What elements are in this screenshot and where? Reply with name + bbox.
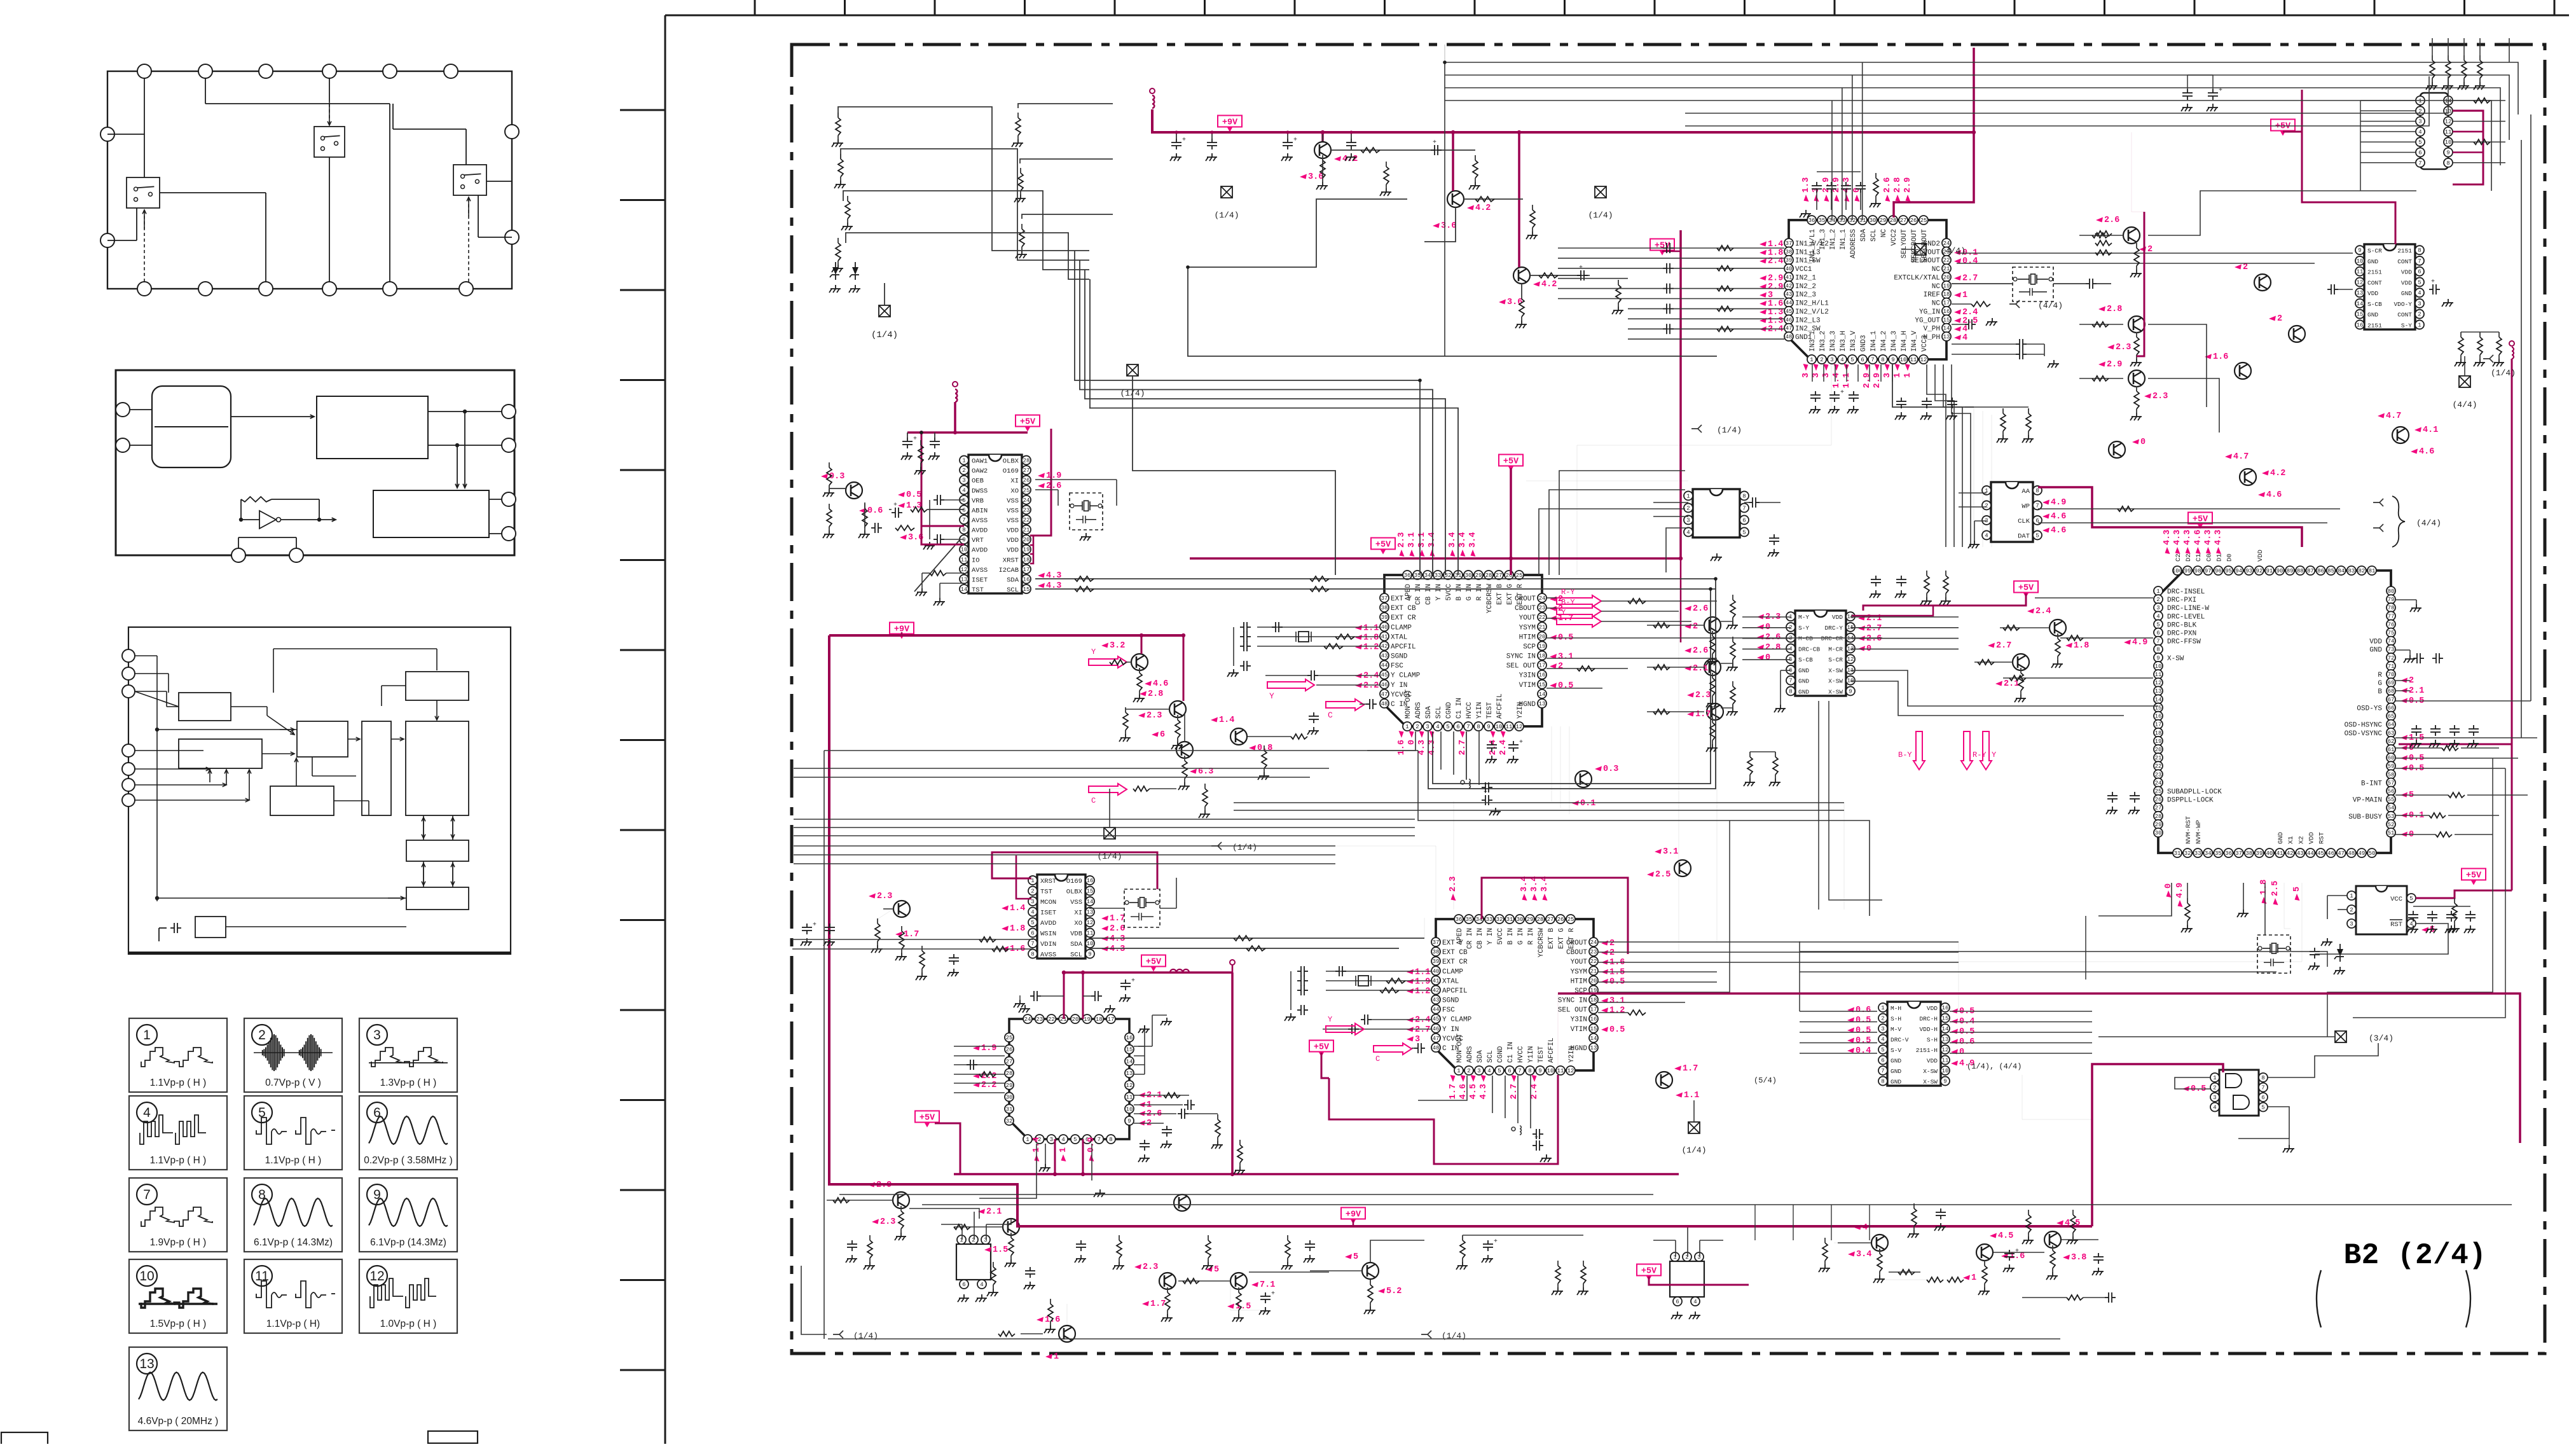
gray junction dots [1714, 577, 1718, 581]
svg-text:ADRS: ADRS [1466, 1046, 1474, 1063]
svg-text:5: 5 [1214, 1265, 1219, 1275]
svg-text:76: 76 [2388, 621, 2395, 628]
svg-text:2.1: 2.1 [2409, 686, 2424, 696]
svg-text:82: 82 [2358, 568, 2365, 574]
power label +5V g [1141, 955, 1166, 967]
svg-text:M-H: M-H [1891, 1005, 1901, 1012]
svg-text:VDD: VDD [2308, 832, 2315, 844]
svg-text:44: 44 [2307, 850, 2314, 857]
waveform box 12 [359, 1259, 457, 1333]
svg-text:95: 95 [2225, 568, 2232, 574]
capacitor C610 [1901, 398, 1902, 401]
resistor R502 [1133, 786, 1150, 791]
svg-text:Y3IN: Y3IN [1519, 672, 1536, 680]
svg-text:11: 11 [961, 557, 968, 563]
U5 pink pin voltages [973, 1046, 980, 1051]
svg-text:DRC-H: DRC-H [1919, 1016, 1938, 1023]
svg-text:28: 28 [2155, 814, 2162, 820]
U3-U4 sync bus right [1598, 601, 1717, 942]
svg-text:X-SW: X-SW [2167, 655, 2184, 663]
svg-text:1.7: 1.7 [1150, 1299, 1166, 1309]
svg-text:2.2: 2.2 [981, 1081, 996, 1090]
U15 bypass gnd [1805, 210, 1807, 214]
long horizontals band mid [794, 819, 1415, 820]
svg-text:25: 25 [1006, 1035, 1013, 1041]
+9V rail branch Q2 [1452, 132, 1454, 191]
C signal arrow T7 [1089, 784, 1127, 795]
svg-text:11: 11 [1126, 1095, 1133, 1101]
svg-text:5.2: 5.2 [1386, 1287, 1402, 1296]
U12 wiring [2327, 895, 2347, 896]
svg-text:1.4: 1.4 [1010, 904, 1025, 913]
svg-text:SYNC IN: SYNC IN [1558, 997, 1587, 1005]
svg-text:3: 3 [1697, 1254, 1700, 1261]
svg-text:2.6: 2.6 [1110, 924, 1125, 934]
block3 box A [179, 693, 231, 721]
svg-text:CR IN: CR IN [1466, 928, 1474, 949]
svg-text:CGND: CGND [1497, 1046, 1505, 1063]
svg-text:VCC: VCC [2390, 896, 2402, 903]
svg-text:1: 1 [2418, 98, 2421, 104]
svg-text:1: 1 [1881, 1005, 1884, 1011]
resistor R101 [840, 154, 841, 159]
svg-text:C: C [1375, 1055, 1380, 1063]
svg-text:4.3: 4.3 [2203, 530, 2213, 545]
svg-text:IN2_1: IN2_1 [1795, 274, 1816, 282]
IC U2 oscillator 16-pin [1028, 875, 1094, 959]
svg-text:72: 72 [2388, 655, 2395, 661]
svg-text:3: 3 [2418, 301, 2421, 307]
transistor T1 bias network [1331, 149, 1475, 151]
resistor R104 [1017, 113, 1019, 118]
svg-text:5: 5 [1498, 1068, 1501, 1074]
svg-text:WP: WP [2022, 502, 2030, 510]
IC U1 sync separator 28-pin [960, 455, 1031, 594]
svg-text:9: 9 [1487, 724, 1490, 730]
resistor R800 [2432, 55, 2433, 60]
transistor T9-T11 bias [2079, 235, 2123, 236]
svg-text:38: 38 [2245, 850, 2252, 857]
svg-text:2.6: 2.6 [1883, 177, 1892, 193]
svg-text:7: 7 [1789, 678, 1792, 684]
svg-text:8: 8 [2446, 160, 2449, 167]
svg-text:16: 16 [1126, 1035, 1133, 1041]
power label +5V i [1309, 1041, 1333, 1052]
svg-text:3: 3 [2350, 921, 2353, 927]
U3 hvcc filter [1461, 780, 1464, 784]
IC U9 buffer 8-pin [1684, 489, 1749, 537]
svg-text:30: 30 [1006, 1095, 1013, 1101]
transistor Q34 [1963, 1231, 2025, 1283]
T4 emitter network [871, 527, 875, 529]
svg-text:1: 1 [2418, 322, 2421, 328]
svg-text:NC: NC [1932, 283, 1941, 291]
svg-text:+5V: +5V [2018, 584, 2034, 593]
svg-text:35: 35 [2215, 850, 2222, 857]
svg-text:12: 12 [369, 1269, 384, 1284]
svg-text:2: 2 [2213, 1085, 2216, 1091]
svg-text:45: 45 [1381, 672, 1388, 679]
capacitor C851 [2432, 911, 2433, 915]
svg-text:V_PH: V_PH [1924, 326, 1940, 333]
svg-text:96: 96 [2215, 568, 2222, 574]
svg-text:0.5: 0.5 [1558, 681, 1573, 691]
U3 sync wires [1546, 658, 1717, 659]
capacitor C603 [1663, 308, 1667, 309]
svg-text:4.9: 4.9 [2051, 498, 2066, 508]
U10 clk dat wires [2038, 508, 2340, 509]
svg-text:1: 1 [143, 1028, 151, 1042]
svg-text:1.2: 1.2 [1609, 1006, 1625, 1016]
svg-text:D2: D2 [2185, 553, 2193, 562]
svg-text:+: + [1840, 389, 1844, 396]
block3 box C [406, 672, 469, 700]
crystal X5 U8 [2257, 935, 2290, 973]
svg-text:1.9: 1.9 [1415, 977, 1430, 987]
svg-text:18: 18 [1590, 997, 1597, 1004]
svg-text:16: 16 [1539, 672, 1546, 679]
svg-text:+5V: +5V [1314, 1043, 1330, 1053]
svg-text:NC: NC [1880, 229, 1888, 238]
U3 left analog network [1257, 627, 1380, 628]
svg-text:4: 4 [2409, 921, 2413, 927]
svg-text:VP-MAIN: VP-MAIN [2353, 797, 2382, 805]
svg-text:CB IN: CB IN [1425, 584, 1433, 605]
schematic boundary dash-dot frame [792, 45, 2545, 1354]
U8 left wires [2035, 597, 2153, 599]
capacitor C425 [1297, 1009, 1301, 1011]
svg-text:(1/4): (1/4) [1717, 426, 1742, 435]
block3 box J [195, 917, 226, 938]
svg-text:4: 4 [1487, 1068, 1491, 1074]
svg-text:33: 33 [2194, 850, 2201, 857]
transistor Q27 [978, 1207, 1019, 1255]
+5V rail U4 loop [1321, 1053, 1329, 1078]
capacitor C612 [1952, 398, 1953, 401]
U2 pink pin voltages [1002, 906, 1009, 911]
resistor R102 [847, 196, 848, 201]
capacitor C312 [1853, 391, 1854, 395]
svg-text:YG_IN: YG_IN [1919, 308, 1940, 316]
svg-text:2.6: 2.6 [1693, 646, 1708, 656]
svg-text:CBOUT: CBOUT [1566, 949, 1587, 957]
svg-text:62: 62 [2388, 738, 2395, 745]
wires from U15 bottom down [1892, 364, 1974, 407]
svg-text:SCL: SCL [1435, 706, 1443, 719]
svg-text:4: 4 [1863, 1223, 1868, 1233]
svg-text:7.1: 7.1 [1260, 1280, 1275, 1290]
capacitor C300 [1816, 182, 1817, 186]
svg-text:9: 9 [1088, 952, 1091, 958]
fork (1/4) mid right [1691, 428, 1698, 429]
svg-text:1: 1 [2213, 1075, 2216, 1081]
svg-text:1.6: 1.6 [2213, 352, 2228, 362]
svg-text:2.3: 2.3 [1143, 1263, 1158, 1272]
transistor Q8 [1211, 716, 1272, 753]
svg-text:33: 33 [1486, 917, 1493, 923]
brace (4/4) right [2392, 496, 2405, 547]
svg-text:1: 1 [1962, 291, 1967, 300]
svg-text:12: 12 [1942, 1047, 1949, 1053]
svg-text:2.8: 2.8 [1765, 643, 1780, 653]
svg-text:2.3: 2.3 [2116, 343, 2131, 352]
bottom mid transistor cluster [1824, 1238, 1826, 1243]
svg-text:IN4_2: IN4_2 [1880, 331, 1888, 352]
svg-text:2: 2 [2277, 314, 2282, 324]
svg-text:5: 5 [1446, 724, 1449, 730]
IC U15 AV input selector QFP48 [1760, 177, 1978, 389]
svg-text:3.8: 3.8 [2071, 1253, 2086, 1263]
capacitor C600 [1663, 247, 1667, 249]
svg-text:MCON: MCON [1040, 899, 1056, 906]
svg-text:17: 17 [1023, 567, 1030, 573]
svg-text:93: 93 [2245, 568, 2252, 574]
power label +5V h [915, 1111, 939, 1123]
svg-text:92: 92 [2256, 568, 2263, 574]
svg-text:14: 14 [1126, 1058, 1133, 1065]
U4 left analog network [1326, 971, 1431, 972]
transistor Q24 [1647, 847, 1691, 880]
svg-text:10: 10 [1547, 1068, 1554, 1074]
long wires top right [1445, 62, 2518, 114]
svg-text:Y IN: Y IN [1391, 682, 1407, 689]
C arrow U4 [1374, 1043, 1412, 1055]
svg-text:1: 1 [1054, 1352, 1059, 1362]
svg-text:Y: Y [1992, 751, 1996, 759]
svg-text:2.9: 2.9 [1863, 373, 1872, 388]
svg-text:2.2: 2.2 [1363, 681, 1379, 691]
svg-text:54: 54 [2388, 805, 2395, 812]
U10 pink pin voltages [2042, 500, 2049, 505]
svg-text:O169: O169 [1003, 467, 1019, 475]
svg-text:18: 18 [1539, 653, 1546, 660]
svg-text:CONT: CONT [2397, 258, 2412, 265]
svg-text:1.2: 1.2 [1363, 642, 1379, 652]
right side long verticals [1973, 407, 1974, 547]
extra top right horizontals [1685, 76, 2448, 113]
IC U10 EEPROM 8-pin [1982, 482, 2042, 542]
capacitor C424 [1297, 990, 1301, 991]
svg-text:24: 24 [1023, 497, 1030, 504]
block1 right terminal a [505, 125, 519, 139]
capacitor C800 [2416, 725, 2417, 729]
svg-text:27: 27 [1496, 572, 1503, 579]
transistor Q23 [1572, 765, 1618, 808]
block3 box G [270, 786, 334, 815]
svg-text:5: 5 [1742, 529, 1746, 536]
svg-text:IN2_SW: IN2_SW [1795, 326, 1821, 333]
svg-text:VSS: VSS [1007, 497, 1019, 505]
svg-text:9: 9 [2446, 150, 2449, 156]
svg-text:3.1: 3.1 [1407, 532, 1417, 548]
crystal X3 U2 [1124, 889, 1160, 927]
svg-text:3: 3 [1415, 1035, 1420, 1044]
svg-text:91: 91 [2266, 568, 2273, 574]
svg-text:0: 0 [1959, 1048, 1964, 1057]
U7 left wires [1800, 1011, 1877, 1012]
svg-text:C: C [1091, 796, 1096, 805]
svg-text:47: 47 [1381, 691, 1388, 698]
svg-text:X-SW: X-SW [1828, 688, 1843, 695]
IC U7 sync switch 16-pin [1878, 1002, 1950, 1086]
block1 left terminal b [100, 233, 114, 247]
svg-text:6: 6 [1031, 931, 1034, 937]
capacitor C404 [1240, 646, 1244, 647]
power label +5V c [1650, 239, 1674, 251]
power label +5V d [2271, 120, 2295, 131]
svg-text:0.5: 0.5 [906, 490, 921, 500]
svg-text:5: 5 [2409, 896, 2413, 902]
svg-text:4.9: 4.9 [2132, 638, 2147, 647]
svg-text:(1/4): (1/4) [1681, 1146, 1706, 1155]
svg-text:59: 59 [2388, 763, 2395, 770]
U1 SDA/SCL bus [1035, 578, 1716, 579]
svg-text:(4/4): (4/4) [2452, 400, 2477, 410]
svg-text:41: 41 [1433, 978, 1440, 984]
svg-text:66: 66 [2388, 705, 2395, 711]
svg-text:2: 2 [2243, 263, 2248, 272]
svg-text:R: R [2378, 672, 2382, 679]
svg-text:Y IN: Y IN [1435, 584, 1443, 600]
svg-text:VCC3: VCC3 [1921, 335, 1929, 352]
svg-text:42: 42 [1381, 643, 1388, 649]
svg-text:22: 22 [1048, 1016, 1055, 1023]
svg-text:TST: TST [1040, 889, 1052, 896]
svg-text:1: 1 [2156, 588, 2159, 595]
U8 nvm wires [2098, 883, 2172, 916]
junction dots magenta rails [1321, 130, 1325, 134]
svg-text:3: 3 [962, 478, 965, 484]
capacitor C405 [1240, 665, 1244, 667]
svg-text:11: 11 [2357, 269, 2364, 275]
+9V rail branch T5 [1141, 635, 1143, 654]
svg-text:16: 16 [1023, 576, 1030, 583]
svg-text:100: 100 [2172, 568, 2182, 574]
U2 magenta +5V loop [992, 852, 1157, 889]
svg-text:13: 13 [1942, 1037, 1949, 1043]
svg-text:56: 56 [2388, 788, 2395, 794]
svg-text:11: 11 [2445, 129, 2452, 135]
svg-text:M-CR: M-CR [1828, 646, 1843, 653]
svg-text:0.4: 0.4 [1856, 1046, 1871, 1056]
mid horizontals crossing below U3 [1234, 802, 1844, 803]
svg-text:6: 6 [1742, 517, 1746, 523]
res right of U15 bottom [2002, 408, 2004, 413]
svg-text:2.4: 2.4 [1499, 740, 1508, 755]
svg-text:+: + [1182, 137, 1186, 144]
block1 right terminal b [505, 230, 519, 244]
svg-text:C: C [1328, 710, 1333, 720]
svg-text:YSYM: YSYM [1571, 968, 1587, 976]
U4 bottom bus [1492, 1076, 1493, 1113]
power label +5V j [1637, 1264, 1661, 1276]
svg-text:36: 36 [1404, 572, 1411, 579]
svg-text:S-H: S-H [1927, 1037, 1938, 1044]
crystal X1 for U1 [1070, 493, 1103, 530]
block3 box E [362, 721, 391, 815]
svg-text:50: 50 [2369, 850, 2376, 857]
svg-text:84: 84 [2338, 568, 2345, 574]
U1 tst gnd [939, 598, 940, 602]
U6 gnd stubs [1780, 705, 1781, 709]
svg-text:10: 10 [1126, 1106, 1133, 1112]
+5V rail top right [1894, 48, 1974, 218]
svg-text:8: 8 [962, 527, 965, 534]
capacitor C402 [1240, 627, 1244, 628]
svg-text:13: 13 [2357, 290, 2364, 296]
svg-text:DRC-LEVEL: DRC-LEVEL [2167, 613, 2205, 621]
svg-text:28: 28 [1537, 917, 1544, 923]
bottom extra passives [1119, 1235, 1120, 1240]
svg-text:3: 3 [1812, 373, 1821, 378]
svg-text:4: 4 [1061, 1137, 1064, 1143]
capacitor C310 [1815, 391, 1816, 395]
svg-text:VDD: VDD [1007, 527, 1019, 535]
svg-text:TEST: TEST [1538, 1046, 1545, 1063]
svg-text:EXT B: EXT B [1548, 928, 1555, 949]
svg-text:22: 22 [1590, 959, 1597, 965]
svg-text:1: 1 [1457, 1068, 1460, 1074]
svg-text:4.3: 4.3 [2173, 530, 2182, 545]
svg-text:1.3: 1.3 [1801, 177, 1811, 193]
svg-text:10: 10 [1900, 357, 1907, 363]
U4 right output wires [1598, 941, 1717, 943]
svg-text:89: 89 [2287, 568, 2294, 574]
svg-text:AFCFIL: AFCFIL [1496, 693, 1504, 719]
svg-text:61: 61 [2388, 747, 2395, 753]
svg-text:10: 10 [1942, 1068, 1949, 1074]
block1 bottom terminal 1 [137, 282, 151, 296]
block diagram 3 outline [128, 627, 511, 954]
U3 bottom bus [1440, 731, 1442, 770]
svg-text:R-Y: R-Y [1973, 751, 1987, 759]
svg-text:4: 4 [980, 1282, 983, 1288]
svg-text:0.1: 0.1 [1580, 799, 1595, 808]
svg-text:1.1Vp-p ( H): 1.1Vp-p ( H) [266, 1319, 320, 1329]
+5V rail bottom mid [1649, 1277, 1749, 1285]
resistor R103 [837, 238, 839, 243]
T4 bias resistors [829, 462, 830, 467]
svg-text:5: 5 [1031, 920, 1034, 926]
U3 Y clamp caps [1307, 675, 1311, 676]
svg-text:C1 IN: C1 IN [1507, 1042, 1515, 1063]
sub-circuit boundary U4 loop [1418, 751, 1870, 916]
svg-text:29: 29 [1527, 917, 1534, 923]
selout bundle U15 to U8 [1927, 364, 1946, 547]
svg-text:AVDD: AVDD [1040, 920, 1056, 927]
B-Y R-Y Y arrows down [1913, 731, 1925, 770]
svg-text:12: 12 [2155, 680, 2162, 686]
svg-text:9: 9 [1849, 688, 1852, 695]
svg-text:4.7: 4.7 [2386, 412, 2401, 421]
long horizontals band mid2 [1598, 820, 1730, 992]
svg-text:AVSS: AVSS [1040, 952, 1056, 959]
IC U6 RGB switch 16-pin [1786, 611, 1855, 696]
zener diode D2 [852, 267, 858, 275]
block2 lower block [373, 490, 489, 537]
svg-text:5: 5 [962, 497, 965, 504]
svg-text:23: 23 [1590, 949, 1597, 955]
svg-text:5: 5 [1850, 357, 1854, 363]
waveform box 8 [244, 1178, 342, 1252]
transistor Q12 [2235, 263, 2271, 291]
capacitor C604 [1663, 328, 1667, 329]
svg-text:B IN: B IN [1507, 928, 1515, 945]
svg-text:21: 21 [1943, 266, 1950, 272]
svg-text:13: 13 [1590, 1045, 1597, 1051]
svg-text:IO: IO [972, 557, 980, 564]
svg-text:SCL: SCL [1870, 229, 1878, 242]
